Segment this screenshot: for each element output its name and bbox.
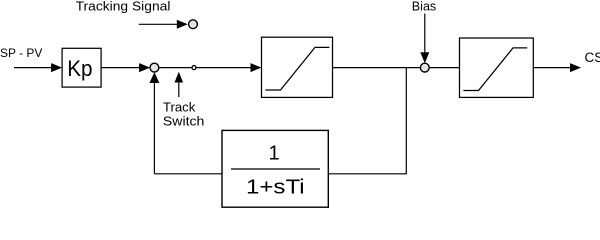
svg-text:CS: CS [585,50,600,65]
svg-text:1+sTi: 1+sTi [246,177,305,199]
svg-text:SP - PV: SP - PV [0,46,43,60]
svg-text:Tracking Signal: Tracking Signal [76,0,171,13]
svg-text:Bias: Bias [412,0,437,14]
svg-text:Kp: Kp [67,56,92,81]
svg-text:Switch: Switch [163,115,205,129]
svg-text:1: 1 [268,143,279,165]
svg-text:Track: Track [163,100,196,114]
